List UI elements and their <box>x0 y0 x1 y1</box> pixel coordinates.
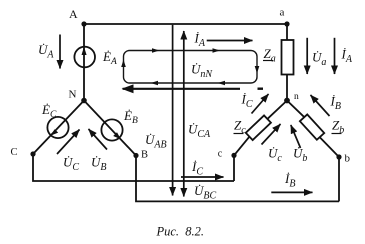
svg-text:U̇nN: U̇nN <box>191 62 213 81</box>
svg-text:c: c <box>218 149 223 160</box>
svg-text:C: C <box>11 147 18 158</box>
svg-text:N: N <box>69 89 77 101</box>
svg-text:ĖA: ĖA <box>102 49 117 67</box>
underline for Z_a <box>263 60 273 62</box>
node B dot <box>133 153 138 158</box>
svg-text:a: a <box>280 7 285 19</box>
wire c up from C-line <box>233 155 235 181</box>
emf source E_A circle <box>74 47 95 68</box>
loop arrow right on top edge 1 <box>152 48 160 53</box>
arrow I_C diagonal toward n <box>252 94 269 114</box>
svg-text:U̇B: U̇B <box>91 155 107 174</box>
minus sign near n <box>258 87 264 89</box>
wire Zb to b <box>319 136 339 157</box>
node n dot <box>284 98 290 104</box>
svg-text:U̇BC: U̇BC <box>194 183 216 202</box>
node b dot <box>336 154 341 159</box>
arrow U_C up-right toward N <box>57 130 80 155</box>
emf source E_B circle <box>101 119 122 140</box>
arrow I_B bottom horizontal <box>271 191 312 193</box>
emf E_B internal arrow toward B <box>113 132 121 139</box>
arrow U_CA up / U_BC down double-headed vertical <box>183 31 185 197</box>
arrow U_b diagonal toward n <box>291 125 301 148</box>
underline for Z_c <box>234 133 244 135</box>
svg-text:U̇C: U̇C <box>63 155 79 174</box>
svg-text:İC: İC <box>191 159 203 178</box>
svg-text:U̇c: U̇c <box>268 146 282 165</box>
loop arrow left on bottom edge 2 <box>218 81 226 86</box>
impedance Z_c rectangle rotated <box>246 115 271 140</box>
arrow U_AB down long <box>172 25 174 196</box>
svg-text:İB: İB <box>330 94 341 113</box>
emf E_C internal arrow toward C <box>50 129 58 136</box>
svg-text:B: B <box>141 150 148 161</box>
arrow I_A right vertical down <box>334 38 336 74</box>
impedance Z_b rectangle rotated <box>300 114 324 139</box>
svg-text:U̇A: U̇A <box>38 42 54 61</box>
emf E_A internal arrow up <box>82 47 87 55</box>
wire Zc to c <box>234 136 250 155</box>
arrow I_B diagonal toward n <box>311 95 330 116</box>
node a dot <box>284 21 289 26</box>
arrow U_B up-left toward N <box>89 129 108 150</box>
svg-text:İB: İB <box>284 171 295 190</box>
arrow U_A down <box>59 35 61 69</box>
svg-text:U̇b: U̇b <box>293 146 307 165</box>
svg-text:ĖB: ĖB <box>123 108 138 126</box>
wire A-a top line <box>84 23 287 25</box>
impedance Z_a rectangle <box>282 40 294 75</box>
arrow I_A top horizontal <box>207 40 253 42</box>
svg-text:İC: İC <box>241 92 253 111</box>
wire C down and right (C-line) <box>33 154 234 181</box>
arrow I_C bottom horizontal <box>181 176 224 178</box>
node A dot <box>81 21 86 26</box>
bold arrow from n side pointing left toward N <box>123 88 240 90</box>
svg-text:U̇a: U̇a <box>312 50 326 69</box>
svg-text:A: A <box>69 7 78 21</box>
voltage loop U_nN rounded rectangle <box>124 51 258 84</box>
svg-text:Рис. 8.2.: Рис. 8.2. <box>156 225 205 239</box>
wire n to Zb <box>287 101 306 119</box>
loop arrow up on left edge <box>121 60 126 68</box>
wire b up from B-line <box>338 157 340 201</box>
loop arrow down on right edge <box>255 66 260 74</box>
wire N to B diagonal <box>84 101 136 156</box>
arrow U_a down <box>306 38 308 74</box>
node N junction dot <box>81 98 87 104</box>
emf source E_C circle <box>47 117 68 138</box>
wire A to N vertical <box>83 24 85 101</box>
underline for Z_b <box>332 133 342 135</box>
wire a to Za top <box>286 24 288 40</box>
node C dot <box>30 151 35 156</box>
loop arrow left on bottom edge 1 <box>151 81 159 86</box>
wire n to Zc <box>267 101 287 120</box>
svg-text:ĖC: ĖC <box>41 102 57 120</box>
svg-text:İA: İA <box>194 31 206 50</box>
svg-text:U̇AB: U̇AB <box>145 132 167 151</box>
node c dot <box>231 153 236 158</box>
svg-text:b: b <box>345 153 351 165</box>
arrow U_c diagonal toward n <box>262 124 281 145</box>
loop arrow right on top edge 2 <box>213 48 221 53</box>
svg-text:U̇CA: U̇CA <box>188 122 211 141</box>
wire N to C diagonal <box>33 101 84 155</box>
svg-text:İA: İA <box>341 47 353 66</box>
wire B down and right (B-line) <box>136 156 339 202</box>
svg-text:Za: Za <box>264 46 276 65</box>
svg-text:n: n <box>294 92 299 102</box>
wire Za bottom to n <box>286 75 288 101</box>
